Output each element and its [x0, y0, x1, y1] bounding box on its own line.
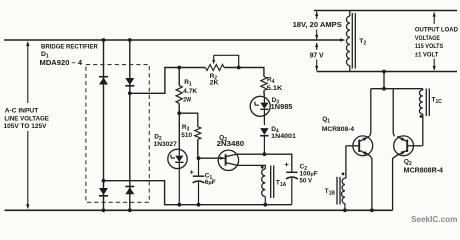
wire Q2 anode: [393, 89, 394, 137]
svg-text:1N985: 1N985: [271, 104, 293, 111]
label R2: [210, 73, 219, 87]
svg-text:MDA920 – 4: MDA920 – 4: [40, 60, 83, 67]
label output load voltage: [415, 27, 458, 59]
svg-text:MCR808R-4: MCR808R-4: [404, 168, 443, 175]
transistor Q1 MCR808-4: [346, 136, 373, 156]
wire top AC line: [4, 39, 342, 41]
transistor Q3 2N3480: [199, 150, 239, 170]
diode D1b top-right: [125, 78, 134, 86]
svg-text:+: +: [284, 160, 289, 169]
resistor R3: [179, 113, 201, 158]
junction R2 right: [237, 66, 241, 70]
label R4: [267, 77, 283, 92]
node A-C input label: [4, 107, 50, 130]
diode D4 1N4001: [260, 128, 269, 154]
polarity dot T1C: [420, 115, 423, 118]
svg-text:BRIDGE RECTIFIER: BRIDGE RECTIFIER: [41, 43, 98, 50]
node 97V dimension arrow: [315, 43, 318, 71]
wire DC- sub rail: [104, 181, 292, 205]
capacitor C1: [190, 158, 205, 205]
svg-text:1N3027: 1N3027: [154, 141, 178, 148]
svg-text:2N3480: 2N3480: [217, 141, 245, 148]
label R3: [181, 124, 192, 139]
wire bridge left leg: [103, 40, 105, 210]
wire Q1 gate to T1B: [345, 146, 347, 178]
label Q1: [322, 116, 354, 133]
label D3: [271, 97, 293, 111]
node A-C input arrow: [26, 41, 29, 209]
junction R1 top: [177, 66, 181, 70]
diode D1a top-left: [99, 77, 108, 85]
wire AC tap arrow into T2: [340, 38, 345, 41]
svg-text:97 V: 97 V: [310, 52, 324, 59]
junction D2 bottom: [177, 203, 181, 207]
svg-text:MCR808-4: MCR808-4: [322, 126, 354, 133]
svg-text:SeekIC.com: SeekIC.com: [411, 215, 457, 224]
label D4: [271, 126, 296, 140]
svg-text:4.7K: 4.7K: [183, 88, 197, 95]
wire Q3 B2 to C2: [238, 154, 292, 172]
svg-text:LINE VOLTAGE: LINE VOLTAGE: [4, 116, 49, 123]
wire Q1 cathode to rail: [370, 155, 372, 210]
node bridge DC+ junction: [128, 91, 132, 95]
node 18V dimension arrow: [315, 12, 318, 40]
wire Q2 cathode to rail end: [393, 155, 397, 210]
svg-text:1N4001: 1N4001: [271, 133, 296, 140]
svg-text:±1 VOLT: ±1 VOLT: [415, 51, 438, 58]
junction C1 top: [197, 156, 201, 160]
junction Q1 cathode rail: [370, 208, 374, 212]
junction C1 bottom: [197, 203, 201, 207]
svg-text:115 VOLTS: 115 VOLTS: [415, 43, 444, 50]
transistor Q2 MCR808R-4: [394, 136, 422, 156]
label T1A: [276, 179, 287, 188]
label 18V 20 AMPS: [293, 20, 342, 29]
wire Q3 B1 to T1A: [238, 165, 266, 169]
label T1B: [325, 188, 336, 197]
zener D3 1N985: [250, 96, 270, 125]
svg-text:OUTPUT LOAD: OUTPUT LOAD: [415, 27, 458, 34]
wire DC+ to center rail: [130, 68, 264, 94]
svg-text:2K: 2K: [210, 80, 219, 87]
resistor R1: [176, 68, 182, 114]
label 97V: [310, 52, 324, 59]
svg-text:VOLTAGE: VOLTAGE: [415, 35, 440, 42]
node bridge DC- junction: [102, 179, 106, 183]
watermark SeekIC.com: [411, 215, 457, 224]
polarity dot T1A: [261, 166, 264, 169]
label D2: [154, 133, 178, 148]
label Q2: [404, 158, 443, 174]
transformer winding T2: [346, 11, 355, 72]
svg-text:105V TO 125V: 105V TO 125V: [4, 123, 47, 130]
diode D1d bottom-right: [125, 187, 134, 195]
wire drop to Q1 Q2: [371, 72, 423, 89]
transformer winding T1A: [262, 166, 274, 205]
label R1: [183, 79, 197, 103]
transformer winding T1B: [337, 177, 346, 211]
node output load arrow: [433, 12, 436, 71]
svg-text:+: +: [190, 168, 195, 177]
svg-text:18V, 20 AMPS: 18V, 20 AMPS: [293, 20, 342, 29]
bridge rectifier label: [40, 43, 99, 66]
zener D2 1N3027: [168, 113, 187, 205]
svg-text:5.1K: 5.1K: [267, 85, 283, 92]
wire bottom AC rail: [5, 209, 393, 211]
svg-text:A-C INPUT: A-C INPUT: [5, 107, 39, 114]
wire T2 bottom rail: [317, 71, 457, 73]
junction T2 bottom drop: [382, 70, 386, 74]
junction dots bridge top: [102, 38, 132, 42]
label T2: [359, 38, 366, 47]
junction D4 bottom: [263, 152, 267, 156]
polarity dot T1B: [342, 173, 345, 176]
diode D1c bottom-left: [99, 188, 108, 196]
bridge rectifier D1 dashed box: [86, 65, 149, 203]
resistor R2: [205, 65, 224, 71]
wire bridge right leg: [129, 40, 131, 210]
junction R1 bottom: [177, 111, 181, 115]
resistor R4: [261, 77, 267, 97]
svg-text:510: 510: [181, 132, 192, 139]
junction T1B bottom rail: [343, 208, 347, 212]
label C1: [205, 172, 216, 186]
transformer winding T1C: [419, 89, 429, 146]
junction T1A bottom: [263, 203, 267, 207]
svg-text:2W: 2W: [183, 96, 192, 103]
wire Q1 collector: [370, 89, 371, 137]
svg-text:6μF: 6μF: [205, 179, 216, 186]
capacitor C2: [284, 160, 297, 205]
label C2: [300, 164, 318, 185]
wire T2 top rail: [314, 10, 457, 12]
svg-text:50 V: 50 V: [300, 178, 313, 185]
junction dots bridge bottom: [102, 208, 132, 212]
label T1C: [432, 97, 443, 106]
junction split: [382, 87, 386, 91]
label Q3: [217, 134, 245, 148]
wire R2 wiper: [212, 55, 239, 67]
